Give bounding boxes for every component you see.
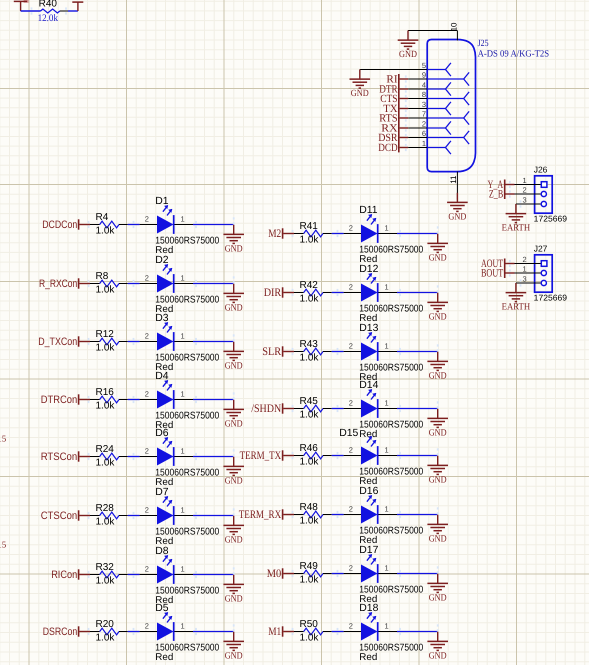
svg-text:D2: D2 xyxy=(155,255,169,266)
svg-text:1: 1 xyxy=(385,622,389,631)
svg-text:M2: M2 xyxy=(268,228,281,240)
svg-text:1: 1 xyxy=(181,506,185,515)
svg-text:1725669: 1725669 xyxy=(534,293,568,303)
svg-text:CTSCon: CTSCon xyxy=(41,510,78,522)
svg-text:D6: D6 xyxy=(155,428,169,439)
svg-text:DCDCon: DCDCon xyxy=(42,219,77,231)
svg-text:2: 2 xyxy=(349,446,353,455)
svg-text:1.0k: 1.0k xyxy=(96,400,116,411)
svg-text:DCD: DCD xyxy=(378,142,397,154)
svg-text:2: 2 xyxy=(145,622,149,631)
svg-text:R20: R20 xyxy=(96,619,115,630)
svg-text:R42: R42 xyxy=(300,280,319,291)
svg-text:R48: R48 xyxy=(300,502,319,513)
svg-text:GND: GND xyxy=(225,361,243,371)
svg-text:2: 2 xyxy=(145,565,149,574)
svg-text:1.0k: 1.0k xyxy=(300,293,320,304)
svg-text:GND: GND xyxy=(225,651,243,661)
svg-text:R4: R4 xyxy=(96,212,109,223)
svg-text:RICon: RICon xyxy=(51,569,77,581)
svg-text:R41: R41 xyxy=(300,221,319,232)
svg-text:EARTH: EARTH xyxy=(502,303,531,313)
svg-text:D18: D18 xyxy=(359,603,378,614)
svg-text:/SHDN: /SHDN xyxy=(251,403,282,415)
svg-text:1.0k: 1.0k xyxy=(96,575,116,586)
svg-text:1: 1 xyxy=(385,283,389,292)
svg-text:DIR: DIR xyxy=(264,287,282,299)
svg-text:1.0k: 1.0k xyxy=(96,284,116,295)
svg-text:GND: GND xyxy=(429,651,447,661)
svg-text:8: 8 xyxy=(422,90,426,99)
svg-text:1: 1 xyxy=(385,342,389,351)
svg-text:1.0k: 1.0k xyxy=(96,225,116,236)
svg-text:D13: D13 xyxy=(359,323,378,334)
svg-text:1725669: 1725669 xyxy=(534,214,568,224)
svg-text:R_RXCon: R_RXCon xyxy=(39,278,77,290)
svg-text:GND: GND xyxy=(429,312,447,322)
svg-text:Red: Red xyxy=(359,652,377,663)
svg-text:1.0k: 1.0k xyxy=(96,516,116,527)
svg-text:2: 2 xyxy=(145,390,149,399)
svg-text:D1: D1 xyxy=(155,196,169,207)
svg-text:1.0k: 1.0k xyxy=(300,409,320,420)
svg-text:Red: Red xyxy=(155,652,173,663)
svg-text:2: 2 xyxy=(349,283,353,292)
svg-text:D17: D17 xyxy=(359,545,378,556)
svg-text:GND: GND xyxy=(351,89,369,99)
svg-text:R43: R43 xyxy=(300,339,319,350)
svg-text:1.0k: 1.0k xyxy=(300,456,320,467)
svg-text:3: 3 xyxy=(422,100,426,109)
svg-text:15: 15 xyxy=(0,433,7,443)
svg-text:2: 2 xyxy=(523,255,527,264)
svg-text:2: 2 xyxy=(523,185,527,194)
svg-text:J25: J25 xyxy=(478,39,489,49)
svg-text:5: 5 xyxy=(422,61,426,70)
svg-text:1: 1 xyxy=(181,447,185,456)
svg-text:R49: R49 xyxy=(300,561,319,572)
svg-text:RTSCon: RTSCon xyxy=(41,451,78,463)
svg-text:12.0k: 12.0k xyxy=(38,13,58,24)
svg-text:GND: GND xyxy=(225,535,243,545)
svg-text:D15: D15 xyxy=(339,428,358,439)
svg-text:R16: R16 xyxy=(96,387,115,398)
svg-text:1: 1 xyxy=(523,176,527,185)
svg-text:SLR: SLR xyxy=(262,346,281,358)
svg-text:1.0k: 1.0k xyxy=(300,352,320,363)
svg-text:R32: R32 xyxy=(96,562,115,573)
svg-text:GND: GND xyxy=(225,244,243,254)
svg-text:2: 2 xyxy=(145,215,149,224)
svg-text:1: 1 xyxy=(385,399,389,408)
svg-text:M1: M1 xyxy=(268,626,281,638)
svg-text:D3: D3 xyxy=(155,313,169,324)
svg-text:6: 6 xyxy=(422,129,426,138)
svg-text:1.0k: 1.0k xyxy=(96,342,116,353)
svg-text:R40: R40 xyxy=(39,0,58,9)
svg-text:1.0k: 1.0k xyxy=(300,234,320,245)
svg-text:M0: M0 xyxy=(267,568,282,580)
svg-text:1: 1 xyxy=(385,564,389,573)
svg-text:D14: D14 xyxy=(359,380,378,391)
svg-text:2: 2 xyxy=(422,119,426,128)
svg-text:GND: GND xyxy=(429,475,447,485)
svg-text:1: 1 xyxy=(422,139,426,148)
svg-text:1: 1 xyxy=(385,224,389,233)
svg-text:J27: J27 xyxy=(534,243,548,253)
svg-text:Red: Red xyxy=(359,429,377,440)
svg-text:10: 10 xyxy=(450,22,459,31)
svg-text:GND: GND xyxy=(429,253,447,263)
svg-text:1: 1 xyxy=(181,622,185,631)
svg-text:2: 2 xyxy=(145,332,149,341)
svg-text:Z_B: Z_B xyxy=(489,188,503,200)
svg-text:4: 4 xyxy=(422,80,426,89)
svg-text:2: 2 xyxy=(145,274,149,283)
svg-text:BOUT: BOUT xyxy=(481,267,503,279)
svg-text:GND: GND xyxy=(448,212,466,222)
svg-text:R50: R50 xyxy=(300,619,319,630)
svg-text:1: 1 xyxy=(523,264,527,273)
svg-text:R28: R28 xyxy=(96,503,115,514)
svg-text:D_TXCon: D_TXCon xyxy=(38,336,77,348)
svg-text:R45: R45 xyxy=(300,396,319,407)
svg-text:GND: GND xyxy=(429,428,447,438)
svg-text:GND: GND xyxy=(429,371,447,381)
svg-text:J26: J26 xyxy=(534,164,548,174)
svg-text:GND: GND xyxy=(225,594,243,604)
svg-text:D4: D4 xyxy=(155,371,169,382)
svg-text:1: 1 xyxy=(181,215,185,224)
svg-text:15: 15 xyxy=(0,540,7,550)
svg-text:2: 2 xyxy=(349,399,353,408)
svg-text:R46: R46 xyxy=(300,443,319,454)
svg-text:1.0k: 1.0k xyxy=(300,574,320,585)
svg-text:1: 1 xyxy=(181,274,185,283)
svg-text:3: 3 xyxy=(523,274,527,283)
svg-text:1.0k: 1.0k xyxy=(300,632,320,643)
svg-text:D16: D16 xyxy=(359,486,378,497)
svg-text:9: 9 xyxy=(422,70,426,79)
svg-text:2: 2 xyxy=(349,622,353,631)
svg-text:R12: R12 xyxy=(96,329,115,340)
svg-text:GND: GND xyxy=(225,303,243,313)
svg-text:2: 2 xyxy=(349,224,353,233)
svg-text:1: 1 xyxy=(181,390,185,399)
svg-text:GND: GND xyxy=(399,50,417,60)
svg-text:DTRCon: DTRCon xyxy=(41,394,78,406)
svg-text:2: 2 xyxy=(349,505,353,514)
svg-text:D12: D12 xyxy=(359,264,378,275)
svg-text:1.0k: 1.0k xyxy=(96,632,116,643)
svg-text:GND: GND xyxy=(225,476,243,486)
svg-text:GND: GND xyxy=(429,593,447,603)
svg-text:GND: GND xyxy=(225,419,243,429)
svg-text:TERM_RX: TERM_RX xyxy=(239,509,282,521)
svg-text:TERM_TX: TERM_TX xyxy=(240,450,282,462)
svg-text:1: 1 xyxy=(181,565,185,574)
svg-text:1.0k: 1.0k xyxy=(300,515,320,526)
svg-text:GND: GND xyxy=(429,534,447,544)
svg-text:7: 7 xyxy=(422,109,426,118)
svg-text:R24: R24 xyxy=(96,444,115,455)
svg-text:D11: D11 xyxy=(359,205,378,216)
svg-text:2: 2 xyxy=(349,564,353,573)
svg-text:1: 1 xyxy=(385,446,389,455)
svg-text:D5: D5 xyxy=(155,603,169,614)
svg-text:D7: D7 xyxy=(155,487,169,498)
svg-text:1.0k: 1.0k xyxy=(96,457,116,468)
svg-text:A-DS 09 A/KG-T2S: A-DS 09 A/KG-T2S xyxy=(478,49,549,59)
svg-text:EARTH: EARTH xyxy=(502,224,531,234)
svg-text:3: 3 xyxy=(523,195,527,204)
svg-text:2: 2 xyxy=(145,447,149,456)
svg-text:2: 2 xyxy=(349,342,353,351)
svg-text:R8: R8 xyxy=(96,271,109,282)
svg-text:1: 1 xyxy=(181,332,185,341)
svg-text:DSRCon: DSRCon xyxy=(43,626,78,638)
svg-text:D8: D8 xyxy=(155,546,169,557)
svg-text:11: 11 xyxy=(449,175,458,184)
svg-text:1: 1 xyxy=(385,505,389,514)
svg-text:2: 2 xyxy=(145,506,149,515)
